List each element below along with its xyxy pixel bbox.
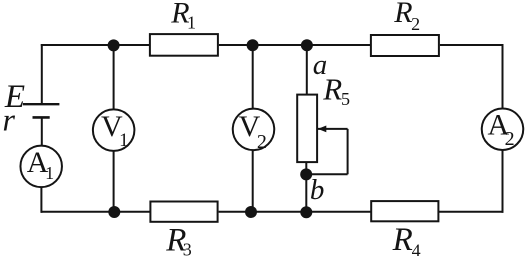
node dot bottom V1 junction <box>108 206 120 218</box>
wire voltmeter V1 branch bottom <box>113 152 115 213</box>
wire top-left segment <box>41 44 150 46</box>
battery r negative plate <box>33 116 50 119</box>
wire rheostat R5 to node b and bottom <box>305 162 307 213</box>
wire R5 wiper return to node b <box>307 173 348 175</box>
ammeter A2 <box>482 108 524 150</box>
wire bottom-middle segment <box>219 211 372 213</box>
wire bottom-right segment <box>438 211 503 213</box>
resistor R3 <box>150 202 217 222</box>
ammeter A1 <box>20 146 62 188</box>
svg-text:r: r <box>3 102 16 138</box>
wire voltmeter V2 branch top <box>252 44 254 108</box>
wire voltmeter V1 branch top <box>113 44 115 109</box>
resistor R2 <box>371 35 439 56</box>
voltmeter V1 <box>93 109 134 151</box>
wire R5 wiper vertical return <box>347 129 349 174</box>
node a junction dot <box>301 39 313 51</box>
resistor R4 <box>371 201 438 221</box>
voltmeter V2 <box>233 109 275 151</box>
wire left vertical to battery <box>41 44 43 104</box>
node dot bottom V2 junction <box>245 206 257 218</box>
wire bottom-left segment <box>41 211 151 213</box>
battery E positive plate <box>23 103 60 105</box>
rheostat R5 body <box>297 95 317 163</box>
wire node a to rheostat R5 <box>306 44 308 95</box>
wire battery to ammeter A1 <box>41 118 43 146</box>
wire top-middle segment <box>219 44 371 46</box>
wire right vertical bottom <box>502 151 504 213</box>
rheostat R5 wiper arrowhead <box>318 126 327 133</box>
svg-text:b: b <box>310 174 325 206</box>
wire top-right segment <box>440 44 503 46</box>
node dot top V2 junction <box>247 39 259 51</box>
wire R5 wiper arm <box>318 128 348 130</box>
svg-text:a: a <box>313 49 328 81</box>
wire ammeter A1 to bottom <box>40 188 42 213</box>
wire voltmeter V2 branch bottom <box>252 151 254 212</box>
node dot bottom R5 junction <box>300 206 312 218</box>
wire right vertical top <box>502 44 504 108</box>
node b junction dot <box>300 168 312 180</box>
node dot top V1 junction <box>108 39 120 51</box>
resistor R1 <box>150 34 218 56</box>
